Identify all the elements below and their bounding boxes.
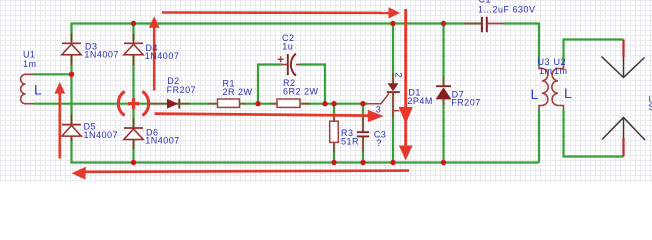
svg-text:FR207: FR207	[167, 85, 197, 95]
diode D3	[62, 34, 81, 66]
wire D1 anode	[392, 24, 394, 84]
svg-text:1N4007: 1N4007	[145, 51, 180, 61]
wire U2 bottom loop	[564, 110, 624, 157]
spark gap top stem	[622, 40, 624, 58]
wire D4 top lead	[132, 24, 134, 42]
wire D6 bottom	[132, 139, 134, 163]
wire D3-D5 vertical	[70, 52, 72, 124]
transformer primary U3	[539, 66, 548, 111]
annotation plus node	[118, 91, 148, 115]
svg-text:1m: 1m	[539, 66, 553, 76]
wire middle rail	[34, 103, 369, 105]
annotation arrow down double	[399, 9, 413, 161]
spark gap top electrode	[602, 57, 645, 78]
svg-text:3: 3	[376, 104, 382, 114]
svg-text:1m: 1m	[23, 59, 37, 69]
svg-text:?: ?	[376, 138, 382, 148]
svg-text:1m: 1m	[554, 66, 568, 76]
grid background	[0, 0, 652, 182]
svg-text:2: 2	[393, 73, 403, 79]
svg-text:1N4007: 1N4007	[84, 130, 119, 140]
wire D4-D6 vertical	[132, 52, 134, 127]
svg-text:1N4007: 1N4007	[84, 50, 119, 60]
svg-text:L: L	[531, 86, 539, 102]
svg-text:1u: 1u	[282, 42, 293, 52]
capacitor C1	[464, 16, 503, 33]
wire C2 left branch	[258, 65, 282, 104]
annotation arrow to gate	[155, 110, 384, 122]
svg-text:SP: SP	[649, 102, 652, 112]
diode D5	[62, 115, 81, 142]
svg-text:1...2uF 630V: 1...2uF 630V	[478, 4, 536, 14]
wire C2 right branch	[300, 65, 326, 104]
annotation arrow up left	[54, 82, 65, 159]
svg-text:FR207: FR207	[451, 97, 481, 107]
wire bottom rail	[72, 135, 540, 163]
svg-text:51R: 51R	[341, 137, 359, 147]
annotation arrow bottom left	[72, 167, 410, 180]
transformer secondary U2	[552, 66, 564, 111]
wire C1 right to U3 top	[503, 24, 539, 66]
wire R3 branch	[333, 104, 335, 163]
spark gap bottom stem	[622, 138, 624, 157]
inductor U1	[21, 74, 34, 103]
resistor R1	[208, 99, 246, 107]
wire U3 bottom to rail	[538, 110, 540, 163]
diode D7	[436, 77, 452, 106]
spark gap bottom electrode	[602, 118, 645, 141]
wire L1 top lead	[34, 73, 72, 75]
svg-text:L: L	[34, 82, 42, 98]
wire D1 cathode	[392, 93, 394, 163]
thyristor D1	[368, 73, 400, 118]
diode D4	[124, 34, 143, 66]
wire top rail	[72, 24, 482, 42]
capacitor C3	[357, 116, 370, 152]
resistor R3	[330, 117, 339, 152]
resistor R2	[271, 99, 310, 107]
wire U2 top loop	[564, 40, 624, 66]
wire C3 branch	[362, 104, 364, 163]
svg-text:2R 2W: 2R 2W	[223, 87, 253, 97]
annotation arrow top	[162, 7, 400, 18]
annotation arrow up mid-left	[149, 16, 160, 90]
svg-text:6R2 2W: 6R2 2W	[283, 86, 319, 96]
wire D7 bottom	[442, 100, 444, 163]
diode D2	[150, 99, 190, 109]
diode D6	[124, 118, 143, 149]
svg-text:L: L	[564, 85, 572, 101]
svg-text:1N4007: 1N4007	[145, 136, 180, 146]
wire D7 top	[442, 24, 444, 87]
capacitor C2	[278, 53, 300, 76]
svg-text:2P4M: 2P4M	[407, 96, 433, 106]
